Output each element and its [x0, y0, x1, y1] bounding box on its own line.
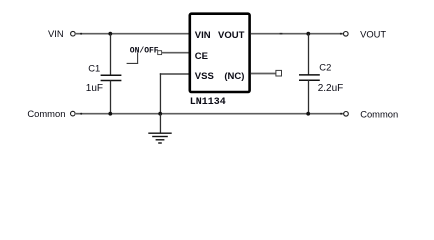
value label 2.2uF — [318, 83, 344, 94]
svg-text:LN1134: LN1134 — [190, 97, 226, 108]
wire ground stem — [159, 114, 161, 134]
svg-text:Common: Common — [360, 109, 398, 120]
node Common left terminal circle — [71, 111, 76, 116]
svg-text:VOUT: VOUT — [360, 28, 386, 39]
switch lever lines below ON/OFF — [127, 53, 139, 64]
node VOUT terminal circle — [344, 32, 349, 37]
wire tick on VOUT wire — [280, 33, 283, 35]
pin label VSS — [195, 71, 214, 82]
label C1 — [88, 63, 100, 74]
svg-text:VOUT: VOUT — [218, 30, 245, 41]
wire U1 VSS pin to ground rail — [160, 73, 189, 113]
pin label VOUT — [218, 30, 245, 41]
part number label LN1134 — [190, 97, 226, 108]
junction node common / C2 — [306, 112, 310, 116]
wire U1 VOUT pin to output terminal — [251, 33, 343, 35]
label C2 — [319, 62, 331, 73]
unconnected NC open square terminal — [276, 70, 282, 76]
junction node common / C1 — [108, 112, 112, 116]
node VOUT output label — [360, 28, 386, 39]
wire U1 NC pin stub — [251, 73, 276, 75]
wire C2 bottom lead — [308, 80, 310, 114]
node Common right label — [360, 109, 398, 120]
ground — [148, 133, 171, 143]
switch contact open square — [158, 51, 162, 55]
svg-text:Common: Common — [27, 108, 65, 119]
junction node VIN / C1 — [108, 32, 112, 36]
wire VIN input to U1 VIN pin — [76, 33, 189, 35]
wire common rail — [76, 113, 344, 115]
junction dot on VIN wire near terminal — [80, 33, 82, 35]
junction node common / ground — [158, 112, 162, 116]
junction dot on common rail near right terminal — [340, 113, 342, 115]
wire switch to U1 CE pin — [162, 52, 189, 54]
svg-text:ON/OFF: ON/OFF — [130, 46, 159, 55]
pin label CE — [195, 51, 208, 62]
svg-text:VIN: VIN — [48, 28, 64, 39]
svg-text:VIN: VIN — [195, 30, 211, 41]
node Common left label — [27, 108, 65, 119]
wire C1 bottom lead — [110, 81, 112, 114]
svg-text:(NC): (NC) — [224, 71, 244, 82]
svg-text:1uF: 1uF — [86, 83, 103, 94]
node Common right terminal circle — [344, 112, 349, 117]
capacitor C2 — [299, 75, 320, 80]
svg-text:C1: C1 — [88, 63, 100, 74]
junction dot on common rail near left terminal — [80, 113, 82, 115]
junction node VOUT / C2 — [306, 32, 310, 36]
value label 1uF — [86, 83, 103, 94]
svg-text:C2: C2 — [319, 62, 331, 73]
capacitor C1 — [101, 75, 122, 80]
junction dot on VOUT wire near terminal — [340, 33, 342, 35]
svg-text:2.2uF: 2.2uF — [318, 83, 344, 94]
label ON/OFF — [130, 46, 159, 55]
wire C1 top lead — [110, 34, 112, 75]
pin label (NC) — [224, 71, 244, 82]
svg-text:VSS: VSS — [195, 71, 214, 82]
node VIN input label — [48, 28, 64, 39]
pin label VIN — [195, 30, 211, 41]
node VIN terminal circle — [71, 31, 76, 36]
IC U1 LN1134 body — [190, 14, 250, 92]
wire C2 top lead — [308, 34, 310, 75]
svg-text:CE: CE — [195, 51, 208, 62]
